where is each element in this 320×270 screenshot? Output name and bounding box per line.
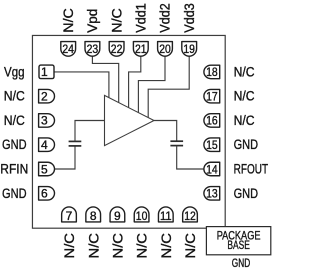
svg-text:18: 18 — [206, 65, 218, 79]
label N/C (pin 9) — [111, 233, 126, 259]
svg-text:11: 11 — [160, 209, 172, 223]
svg-text:RFOUT: RFOUT — [234, 162, 269, 177]
svg-text:19: 19 — [183, 42, 195, 56]
label GND (pin 4) — [2, 137, 27, 152]
pin 18 — [204, 65, 220, 79]
svg-text:3: 3 — [41, 114, 48, 128]
svg-text:20: 20 — [159, 42, 171, 56]
label N/C (pin 2) — [4, 89, 25, 104]
svg-text:N/C: N/C — [234, 113, 255, 128]
svg-text:N/C: N/C — [234, 64, 255, 79]
svg-text:23: 23 — [87, 42, 99, 56]
label N/C (pin 3) — [4, 113, 25, 128]
pin 4 — [39, 138, 55, 152]
pin 19 — [182, 42, 197, 57]
svg-text:21: 21 — [135, 42, 147, 56]
svg-text:BASE: BASE — [227, 240, 250, 252]
svg-text:10: 10 — [136, 209, 148, 223]
svg-text:N/C: N/C — [159, 233, 174, 259]
label Vgg (pin 1) — [4, 64, 25, 79]
svg-text:Vdd3: Vdd3 — [182, 3, 197, 33]
svg-text:22: 22 — [111, 42, 123, 56]
pin 17 — [204, 89, 220, 103]
label GND (pin 13) — [234, 186, 259, 201]
pin 12 — [183, 207, 198, 223]
label RFOUT (pin 14) — [234, 162, 269, 177]
label GND (package base) — [232, 258, 250, 270]
svg-text:15: 15 — [206, 138, 218, 152]
svg-text:GND: GND — [234, 137, 259, 152]
svg-text:N/C: N/C — [4, 89, 25, 104]
pin 15 — [204, 138, 220, 152]
svg-text:N/C: N/C — [109, 8, 124, 33]
pin 21 — [133, 42, 148, 57]
label RFIN (pin 5) — [0, 162, 28, 177]
pin 7 — [62, 207, 77, 223]
label N/C (pin 16) — [234, 113, 255, 128]
pin 20 — [158, 42, 173, 57]
svg-text:N/C: N/C — [4, 113, 25, 128]
svg-text:5: 5 — [41, 162, 48, 176]
svg-text:N/C: N/C — [135, 233, 150, 259]
svg-text:GND: GND — [234, 186, 259, 201]
svg-text:1: 1 — [41, 65, 48, 79]
pin 3 — [39, 114, 55, 128]
label N/C (pin 12) — [183, 233, 198, 259]
label N/C (pin 8) — [86, 233, 101, 259]
svg-text:N/C: N/C — [86, 233, 101, 259]
svg-text:N/C: N/C — [111, 233, 126, 259]
svg-text:Vdd2: Vdd2 — [158, 3, 173, 33]
label N/C (pin 10) — [135, 233, 150, 259]
svg-text:16: 16 — [206, 114, 218, 128]
op-amp A1 (amplifier triangle) — [105, 95, 155, 145]
svg-text:Vgg: Vgg — [4, 64, 25, 79]
pin 9 — [110, 207, 125, 223]
pin 23 — [85, 42, 100, 57]
wire Vpd pin23 to amplifier — [92, 56, 118, 103]
pin 2 — [39, 89, 55, 103]
svg-text:7: 7 — [66, 209, 73, 223]
label Vdd3 (pin 19) — [182, 3, 197, 33]
label N/C (pin 24) — [61, 8, 76, 33]
pin 8 — [86, 207, 101, 223]
svg-text:GND: GND — [232, 258, 250, 270]
label N/C (pin 18) — [234, 64, 255, 79]
package base paddle box — [206, 227, 270, 255]
wire capacitor C2 to RFOUT pin14 — [177, 146, 204, 169]
label Vdd2 (pin 20) — [158, 3, 173, 33]
label GND (pin 6) — [2, 186, 27, 201]
wire capacitor C1 to amplifier input — [75, 121, 104, 142]
svg-text:N/C: N/C — [62, 233, 77, 259]
label N/C (pin 17) — [234, 89, 255, 104]
svg-text:Vpd: Vpd — [85, 9, 100, 33]
capacitor C1 (input blocking) — [69, 141, 82, 146]
svg-text:N/C: N/C — [234, 89, 255, 104]
pin 10 — [134, 207, 149, 223]
pin 11 — [158, 207, 173, 223]
svg-text:GND: GND — [2, 137, 27, 152]
svg-text:9: 9 — [114, 209, 121, 223]
svg-text:6: 6 — [41, 187, 48, 201]
wire Vdd1 pin21 to amplifier — [129, 56, 141, 108]
svg-text:N/C: N/C — [183, 233, 198, 259]
svg-text:N/C: N/C — [61, 8, 76, 33]
pin 5 — [39, 162, 55, 176]
wire Vdd2 pin20 to amplifier — [138, 56, 165, 113]
svg-text:Vdd1: Vdd1 — [134, 3, 149, 33]
label GND (pin 15) — [234, 137, 259, 152]
label N/C (pin 11) — [159, 233, 174, 259]
svg-text:17: 17 — [206, 90, 218, 104]
wire Vdd3 pin19 to amplifier — [148, 56, 189, 118]
label Vpd (pin 23) — [85, 9, 100, 33]
svg-text:13: 13 — [206, 187, 218, 201]
svg-text:2: 2 — [41, 90, 48, 104]
pin 1 (square marker) — [39, 65, 54, 79]
wire Vgg pin1 to amplifier — [54, 72, 109, 98]
capacitor C2 (output blocking) — [170, 141, 183, 145]
pin 14 — [204, 162, 220, 176]
pin 16 — [204, 114, 220, 128]
svg-text:8: 8 — [90, 209, 97, 223]
package outline — [32, 35, 225, 228]
svg-text:4: 4 — [41, 138, 48, 152]
pin 24 — [61, 42, 76, 57]
svg-text:GND: GND — [2, 186, 27, 201]
wire RFIN pin5 to capacitor C1 — [54, 146, 75, 169]
svg-text:12: 12 — [184, 209, 196, 223]
pin 6 — [39, 187, 55, 201]
wire amplifier output to capacitor C2 — [154, 121, 177, 142]
pin 13 — [204, 187, 220, 201]
label N/C (pin 22) — [109, 8, 124, 33]
label N/C (pin 7) — [62, 233, 77, 259]
label Vdd1 (pin 21) — [134, 3, 149, 33]
pin 22 — [109, 42, 124, 57]
svg-text:24: 24 — [62, 42, 74, 56]
svg-text:RFIN: RFIN — [0, 162, 28, 177]
svg-text:14: 14 — [206, 162, 218, 176]
